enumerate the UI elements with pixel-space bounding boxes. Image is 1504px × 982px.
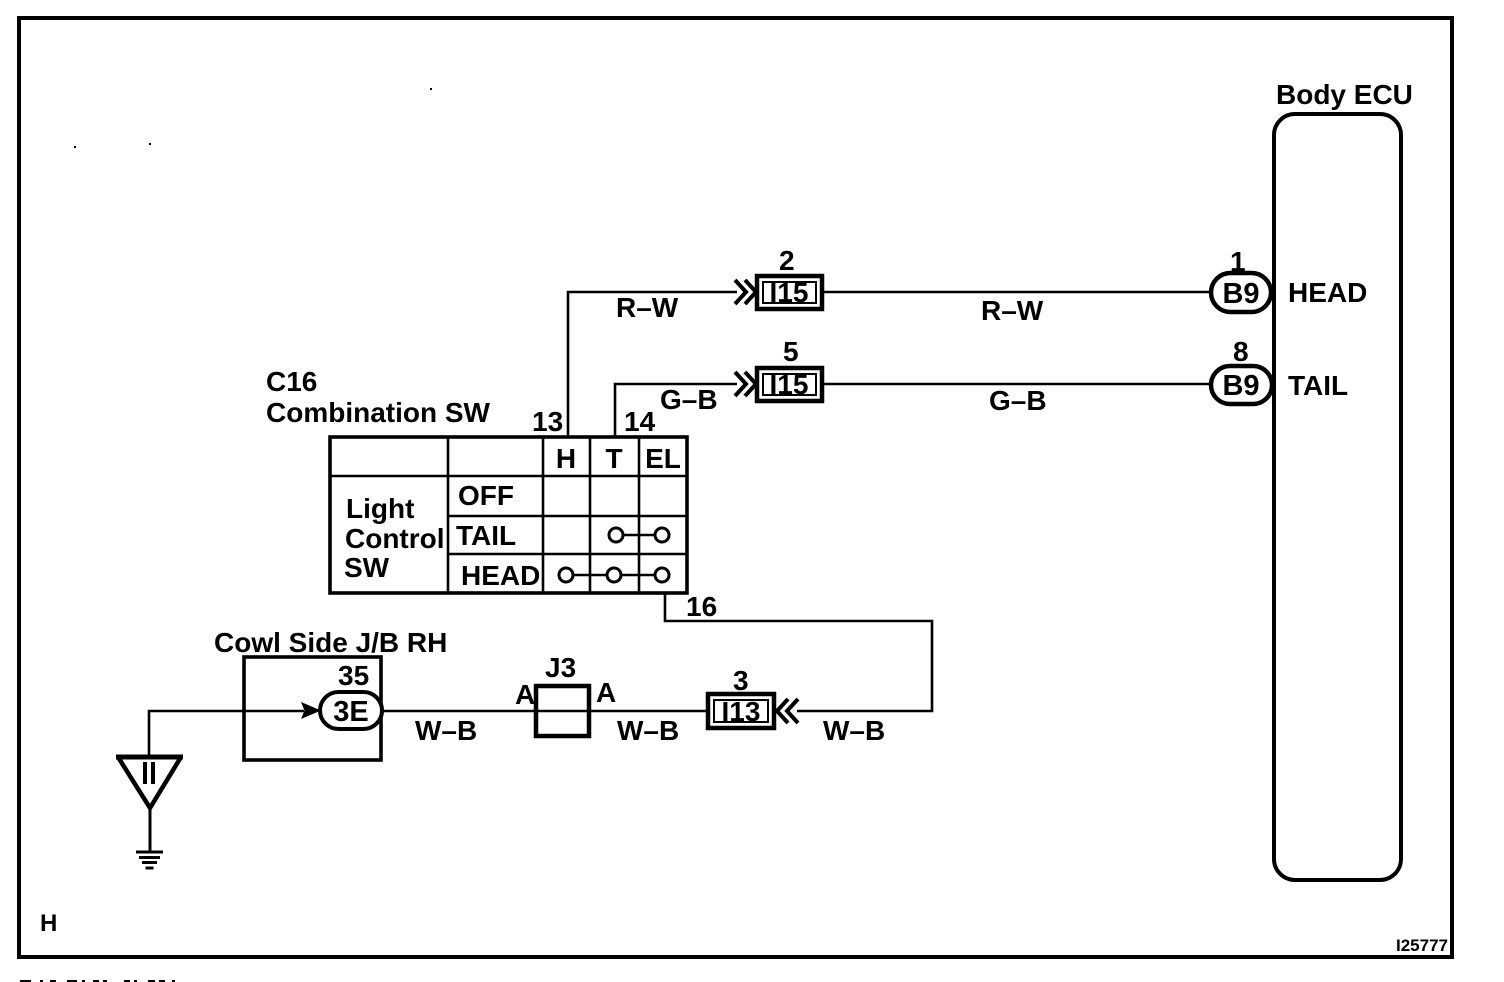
cropped text row at sheet bottom xyxy=(20,980,175,982)
svg-text:TAIL: TAIL xyxy=(456,520,516,551)
svg-text:Combination SW: Combination SW xyxy=(266,397,491,428)
svg-text:W–B: W–B xyxy=(617,715,679,746)
connector B9 pin8 (TAIL) xyxy=(1211,366,1272,404)
wire inside cowl J/B xyxy=(244,710,304,713)
wire I15 to B9 pin1 (R-W) xyxy=(822,291,1213,294)
wire pin16 down-right-down to I13 xyxy=(665,593,932,711)
connector B9 pin1 (HEAD) xyxy=(1211,273,1271,312)
svg-text:J3: J3 xyxy=(545,652,576,683)
connector I13 xyxy=(708,694,774,728)
svg-text:R–W: R–W xyxy=(981,295,1044,326)
svg-text:W–B: W–B xyxy=(823,715,885,746)
switch table C16 xyxy=(330,437,687,593)
svg-text:B9: B9 xyxy=(1222,278,1259,310)
svg-text:Cowl Side J/B RH: Cowl Side J/B RH xyxy=(214,627,447,658)
junction block Cowl Side J/B RH xyxy=(244,657,381,760)
svg-text:8: 8 xyxy=(1233,336,1249,367)
connector 3E xyxy=(320,692,382,729)
switch contacts TAIL row xyxy=(609,528,669,542)
earth ground symbol xyxy=(136,852,163,868)
ground triangle II xyxy=(116,757,183,808)
wire pin14 to I15 (G-B segment) xyxy=(615,384,737,437)
splice arrow into I15 pin 2 xyxy=(735,280,756,304)
svg-text:H: H xyxy=(40,910,57,937)
svg-text:14: 14 xyxy=(624,406,656,437)
svg-text:3E: 3E xyxy=(333,696,368,728)
wire pin13 to I15 (R-W segment) xyxy=(568,292,737,437)
ECU box Body ECU xyxy=(1274,114,1401,880)
svg-text:A: A xyxy=(515,679,535,710)
switch contacts HEAD row xyxy=(559,568,669,582)
svg-text:HEAD: HEAD xyxy=(461,560,540,591)
svg-text:EL: EL xyxy=(645,443,681,474)
svg-text:35: 35 xyxy=(338,660,369,691)
svg-text:Body ECU: Body ECU xyxy=(1276,79,1413,110)
wire I13 to cowl side J/B (W-B) xyxy=(382,710,708,713)
svg-text:Control: Control xyxy=(345,523,445,554)
svg-text:I25777: I25777 xyxy=(1396,936,1448,955)
svg-text:G–B: G–B xyxy=(660,384,718,415)
svg-text:HEAD: HEAD xyxy=(1288,277,1367,308)
svg-text:G–B: G–B xyxy=(989,385,1047,416)
svg-text:Light: Light xyxy=(346,493,414,524)
svg-text:13: 13 xyxy=(532,406,563,437)
splice arrow into I13 xyxy=(777,699,798,723)
junction connector J3 xyxy=(536,686,589,736)
svg-text:16: 16 xyxy=(686,591,717,622)
svg-text:TAIL: TAIL xyxy=(1288,370,1348,401)
svg-text:T: T xyxy=(605,443,622,474)
svg-text:5: 5 xyxy=(783,336,799,367)
connector I15 (R-W) xyxy=(757,276,822,309)
svg-text:A: A xyxy=(596,677,616,708)
svg-text:H: H xyxy=(556,443,576,474)
svg-text:I13: I13 xyxy=(722,696,761,727)
svg-text:B9: B9 xyxy=(1222,370,1259,402)
scan noise specks xyxy=(74,88,432,148)
wire triangle to earth xyxy=(149,806,152,852)
wire cowl J/B to ground xyxy=(149,711,244,757)
solid arrow into 3E xyxy=(301,702,321,719)
svg-text:C16: C16 xyxy=(266,366,317,397)
svg-text:OFF: OFF xyxy=(458,480,514,511)
splice arrow into I15 pin 5 xyxy=(735,372,756,396)
wire I15 to B9 pin8 (G-B) xyxy=(822,383,1213,386)
svg-text:R–W: R–W xyxy=(616,292,679,323)
svg-text:2: 2 xyxy=(779,245,795,276)
svg-text:3: 3 xyxy=(733,665,749,696)
svg-text:I15: I15 xyxy=(770,369,809,400)
svg-text:I15: I15 xyxy=(770,277,809,308)
svg-text:SW: SW xyxy=(344,552,390,583)
connector I15 (G-B) xyxy=(757,368,822,401)
svg-text:W–B: W–B xyxy=(415,715,477,746)
